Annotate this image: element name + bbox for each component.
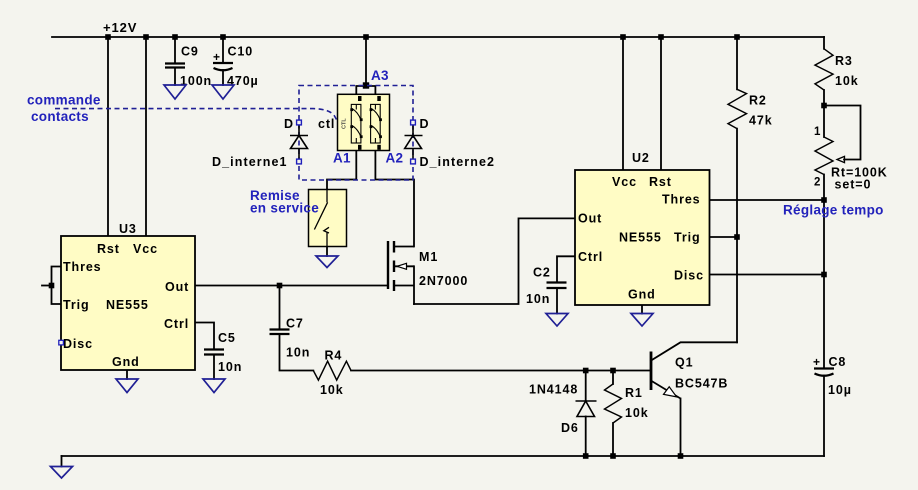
wire R2 bottom to Q1 collector corner — [736, 129, 738, 343]
wire R2 top — [736, 37, 738, 89]
svg-text:en service: en service — [250, 201, 319, 216]
svg-text:Gnd: Gnd — [112, 355, 140, 369]
wire junction to potentiometer — [823, 106, 825, 138]
wire Trig U2 — [710, 236, 738, 238]
wire rail to A3 — [365, 37, 367, 86]
wire C10 to rail — [222, 37, 224, 63]
node Disc C8 — [821, 272, 827, 278]
svg-text:C5: C5 — [218, 331, 236, 345]
potentiometer Rt — [815, 137, 833, 175]
node rail C9 — [172, 34, 178, 40]
svg-text:NE555: NE555 — [619, 231, 662, 245]
wire C7 top — [279, 286, 281, 330]
svg-text:U3: U3 — [119, 222, 137, 236]
wire C9 to ground — [174, 68, 176, 86]
node Q1 emitter rail — [678, 453, 684, 459]
IC U3 NE555 — [61, 236, 195, 370]
node Thres Trig bracket — [49, 283, 55, 289]
svg-text:47k: 47k — [749, 114, 773, 128]
svg-text:10k: 10k — [835, 74, 859, 88]
node rail R2 — [734, 34, 740, 40]
wire D6 top — [585, 371, 587, 402]
svg-text:C8: C8 — [829, 355, 847, 369]
svg-text:commande: commande — [27, 93, 101, 108]
wire potentiometer bottom to Thres node — [823, 175, 825, 201]
svg-text:Réglage tempo: Réglage tempo — [783, 203, 884, 218]
capacitor C10 polarized — [213, 63, 233, 70]
svg-text:NE555: NE555 — [106, 298, 149, 312]
wire R4 to Q1 base — [351, 370, 651, 372]
wire U2 Rst to rail — [660, 37, 662, 170]
resistor R4 — [313, 361, 351, 380]
wire A1 to switch — [327, 143, 356, 190]
ground under C9 — [164, 85, 186, 99]
relay block A3 dashed boundary — [299, 86, 413, 181]
svg-text:2N7000: 2N7000 — [419, 274, 468, 288]
wire stub left of bracket — [42, 285, 52, 287]
svg-text:Trig: Trig — [674, 231, 701, 245]
node R3 pot — [821, 103, 827, 109]
svg-text:Rst: Rst — [649, 175, 672, 189]
svg-text:C9: C9 — [181, 45, 199, 59]
node rail U3 Vcc — [143, 34, 149, 40]
svg-text:10k: 10k — [320, 383, 344, 397]
wire R1 top — [612, 371, 614, 385]
IC U2 NE555 — [575, 170, 710, 305]
wire U2 Out left — [414, 218, 575, 304]
svg-text:D6: D6 — [561, 421, 579, 435]
ground under C5 — [203, 379, 225, 393]
port square D_interne1 — [297, 159, 302, 164]
svg-text:R3: R3 — [835, 54, 853, 68]
wire rail corner to R3 — [823, 37, 825, 49]
svg-text:Disc: Disc — [63, 337, 93, 351]
svg-text:Thres: Thres — [662, 193, 701, 207]
wire M1 source down — [413, 266, 415, 304]
node C7 out — [277, 283, 283, 289]
wire C8 to bottom rail — [823, 376, 825, 457]
wire U3 Thres Trig bracket — [52, 267, 62, 305]
svg-text:10µ: 10µ — [828, 383, 852, 397]
port square D left top — [297, 120, 302, 125]
svg-text:Ctrl: Ctrl — [578, 250, 603, 264]
svg-text:A2: A2 — [386, 151, 404, 166]
svg-text:1N4148: 1N4148 — [529, 383, 578, 397]
port square D_interne2 — [411, 159, 416, 164]
capacitor C2 — [547, 283, 567, 289]
svg-text:Trig: Trig — [63, 298, 90, 312]
svg-text:10n: 10n — [286, 346, 310, 360]
wire C10 to ground — [222, 70, 224, 85]
svg-text:+: + — [813, 355, 821, 369]
capacitor C9 — [165, 64, 185, 68]
svg-text:10n: 10n — [218, 360, 242, 374]
port square U3 Disc — [59, 340, 64, 345]
dashed control line commande — [55, 109, 339, 123]
svg-text:set=0: set=0 — [835, 178, 872, 192]
relay A3 body — [338, 94, 390, 150]
wire Q1 emitter to rail — [680, 399, 682, 457]
node R1 rail — [610, 453, 616, 459]
svg-text:+: + — [213, 50, 221, 64]
ground under C10 — [212, 85, 234, 99]
svg-text:Thres: Thres — [63, 260, 102, 274]
wire C2 to ground — [556, 288, 558, 314]
switch Remise en service — [309, 190, 347, 247]
svg-text:C10: C10 — [228, 45, 254, 59]
wire C9 to rail — [174, 37, 176, 64]
node pot Thres — [821, 197, 827, 203]
svg-text:D_interne1: D_interne1 — [212, 155, 288, 169]
svg-text:10k: 10k — [625, 406, 649, 420]
resistor R3 — [815, 49, 833, 90]
ground under U2 — [631, 314, 653, 327]
wire top +12V rail — [52, 36, 824, 38]
wire D6 bottom — [585, 417, 587, 457]
node R1 base wire — [610, 368, 616, 374]
capacitor C7 — [270, 330, 290, 335]
wire A3 internal bus — [356, 86, 375, 104]
wire Disc U2 to C8 — [710, 274, 825, 276]
diode D internal right — [405, 125, 423, 159]
svg-text:Vcc: Vcc — [133, 242, 158, 256]
svg-text:A1: A1 — [333, 151, 351, 166]
wire Thres U2 to pot — [710, 199, 825, 201]
node rail U2 Rst — [658, 34, 664, 40]
capacitor C5 — [204, 350, 224, 355]
svg-text:R2: R2 — [749, 94, 767, 108]
diode D6 1N4148 — [576, 401, 597, 417]
ground bottom left — [51, 467, 73, 479]
transistor Q1 BC547B — [650, 352, 653, 391]
svg-text:R4: R4 — [325, 349, 343, 363]
svg-text:470µ: 470µ — [227, 74, 259, 88]
svg-text:ctl: ctl — [318, 117, 335, 131]
wire U3 Out to M1 gate — [195, 285, 388, 287]
ground under switch — [316, 256, 338, 268]
svg-text:10n: 10n — [526, 292, 550, 306]
svg-text:Out: Out — [578, 212, 602, 226]
wire R1 bottom — [612, 423, 614, 456]
svg-text:Ctrl: Ctrl — [164, 317, 189, 331]
wire U2 Vcc to rail — [622, 37, 624, 170]
wire U2 Ctrl to C2 — [557, 256, 575, 282]
svg-text:Vcc: Vcc — [612, 175, 637, 189]
wire Disc node to C8 — [823, 275, 825, 369]
svg-text:1: 1 — [814, 126, 821, 138]
ground under U3 — [116, 379, 138, 393]
svg-text:R1: R1 — [625, 386, 643, 400]
wire C5 to ground — [213, 355, 215, 380]
node A3 junction — [363, 82, 369, 88]
wire C7 bottom to R4 — [280, 334, 314, 371]
svg-text:Gnd: Gnd — [628, 288, 656, 302]
svg-text:Out: Out — [165, 280, 189, 294]
wire pot wiper loop — [824, 106, 861, 160]
node rail A3 — [363, 34, 369, 40]
node Trig R2 — [734, 234, 740, 240]
svg-text:C2: C2 — [533, 266, 551, 280]
svg-text:Q1: Q1 — [675, 356, 693, 370]
svg-text:D: D — [420, 117, 430, 131]
diode D internal left — [290, 125, 308, 159]
node rail U2 Vcc — [620, 34, 626, 40]
wire U2 Gnd — [641, 305, 643, 314]
wire U3 Ctrl to C5 — [195, 323, 214, 350]
wire R3 to junction — [823, 90, 825, 106]
mosfet M1 2N7000 — [388, 241, 394, 291]
svg-text:2: 2 — [814, 177, 820, 189]
svg-text:M1: M1 — [419, 250, 438, 264]
svg-text:Disc: Disc — [674, 269, 704, 283]
resistor R2 — [728, 89, 747, 128]
node D6 rail — [583, 453, 589, 459]
svg-text:contacts: contacts — [31, 109, 89, 124]
wire Q1 collector — [651, 342, 737, 360]
node rail C10 — [220, 34, 226, 40]
port square D right top — [411, 120, 416, 125]
wire U3 Gnd — [126, 370, 128, 379]
svg-text:A3: A3 — [371, 68, 389, 83]
capacitor C8 polarized — [814, 369, 834, 376]
wire Thres node down to Disc node — [823, 200, 825, 275]
svg-text:CTL: CTL — [342, 118, 348, 129]
svg-text:D_interne2: D_interne2 — [420, 155, 496, 169]
wire U3 Rst to rail — [107, 37, 109, 236]
resistor R1 — [605, 384, 622, 423]
svg-text:U2: U2 — [632, 151, 650, 165]
node D6 base wire — [583, 368, 589, 374]
svg-text:D: D — [284, 117, 294, 131]
wire switch to ground — [326, 247, 328, 257]
node rail U3 Rst — [105, 34, 111, 40]
svg-text:Rst: Rst — [97, 242, 120, 256]
wire A2 to M1 drain — [375, 143, 414, 247]
ground under C2 — [546, 314, 568, 327]
svg-text:BC547B: BC547B — [675, 377, 728, 391]
wire rail left end — [61, 456, 63, 467]
svg-text:C7: C7 — [286, 317, 304, 331]
svg-text:+12V: +12V — [103, 20, 137, 35]
wire U3 Vcc to rail — [145, 37, 147, 236]
wire bottom ground rail — [62, 455, 825, 457]
